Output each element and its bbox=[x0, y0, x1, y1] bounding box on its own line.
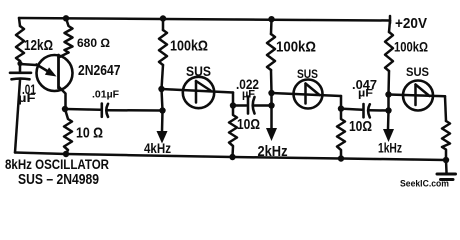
wire SUS1 cathode corner down bbox=[232, 93, 235, 106]
output arrow 4kHz shaft bbox=[161, 111, 164, 133]
node dot stage2 lower bbox=[268, 102, 274, 108]
capacitor C1 .01uF top plate bbox=[10, 72, 31, 75]
SUS U3 flag slant bbox=[416, 85, 430, 97]
resistor R4 100k stage2 top wire bbox=[270, 19, 273, 34]
svg-text:SUS: SUS bbox=[297, 67, 318, 81]
wire C3 to node D bbox=[254, 104, 272, 107]
capacitor C2 .01uF left plate bbox=[101, 104, 104, 117]
SUS U3 gate pole bbox=[414, 85, 417, 106]
SUS U1 circle bbox=[183, 77, 214, 108]
resistor R7 10 ohm zigzag stage2 bbox=[229, 106, 237, 158]
wire R1 bottom to node A bbox=[19, 61, 22, 64]
svg-text:.01µF: .01µF bbox=[92, 89, 120, 101]
capacitor C4 .047 left plate bbox=[362, 104, 365, 117]
node dot top rail 680 bbox=[63, 15, 69, 21]
wire node E to SUS3 bbox=[389, 95, 446, 97]
SUS U2 circle bbox=[294, 80, 323, 109]
resistor R1 12k zigzag bbox=[16, 26, 24, 61]
resistor R9 load zigzag bbox=[442, 121, 450, 160]
node dot stage1 upper bbox=[158, 86, 164, 92]
svg-text:2kHz: 2kHz bbox=[258, 144, 288, 160]
resistor R5 100k zigzag bbox=[385, 32, 393, 71]
svg-text:µF: µF bbox=[358, 88, 373, 100]
resistor R3 100k zigzag bbox=[159, 30, 167, 65]
svg-text:SeekIC.com: SeekIC.com bbox=[400, 179, 449, 190]
wire R3 to node C bbox=[162, 65, 164, 89]
svg-text:4kHz: 4kHz bbox=[144, 141, 171, 156]
resistor R8 10 ohm zigzag stage3 bbox=[337, 109, 345, 159]
capacitor C4 .047 right plate bbox=[368, 104, 370, 117]
capacitor C3 .022 left plate bbox=[247, 97, 250, 114]
svg-text:8kHz OSCILLATOR: 8kHz OSCILLATOR bbox=[5, 157, 109, 172]
SUS U1 flag slant bbox=[196, 81, 211, 91]
svg-text:10Ω: 10Ω bbox=[349, 119, 372, 135]
output arrow 2kHz shaft bbox=[270, 106, 273, 130]
SUS U1 gate pole bbox=[195, 81, 198, 103]
node dot bottom rail R6 bbox=[63, 151, 69, 157]
svg-text:100kΩ: 100kΩ bbox=[394, 39, 428, 55]
wire node A to C1 bbox=[19, 64, 22, 72]
svg-text:+20V: +20V bbox=[395, 15, 427, 32]
wire C2 to node B bbox=[108, 109, 163, 112]
svg-text:µF: µF bbox=[242, 89, 255, 101]
svg-text:1kHz: 1kHz bbox=[378, 140, 402, 156]
wire emitter from node A bbox=[20, 64, 36, 65]
wire top supply rail bbox=[19, 18, 390, 21]
resistor R3 100k stage1 top wire bbox=[162, 19, 165, 31]
wire oscillator output node to C2 bbox=[65, 108, 100, 111]
transistor Q1 emitter arrowhead bbox=[45, 67, 57, 76]
resistor R5 100k stage3 top wire bbox=[389, 21, 390, 33]
node dot bottom rail R8 bbox=[338, 155, 344, 161]
transistor Q1 base bar bbox=[57, 55, 60, 88]
ground bar 2 bbox=[441, 178, 454, 181]
wire C4 to node E bbox=[370, 109, 389, 112]
node dot bottom rail R7 bbox=[229, 154, 235, 160]
wire C1 to bottom rail bbox=[15, 80, 20, 153]
node dot top rail 100k1 bbox=[160, 15, 166, 21]
svg-text:SUS: SUS bbox=[406, 65, 429, 79]
node dot oscillator output bbox=[62, 106, 68, 112]
output arrow 2kHz head bbox=[266, 128, 277, 141]
capacitor C3 .022 right plate bbox=[253, 97, 255, 114]
wire +20V corner stub bbox=[389, 16, 392, 23]
transistor Q1 base1 lead bbox=[59, 87, 66, 109]
wire bottom ground rail bbox=[15, 153, 446, 161]
SUS U3 circle bbox=[403, 81, 433, 111]
svg-text:2N2647: 2N2647 bbox=[78, 63, 121, 79]
svg-text:10Ω: 10Ω bbox=[237, 117, 260, 133]
SUS U2 flag slant bbox=[306, 84, 320, 96]
svg-text:SUS: SUS bbox=[186, 64, 211, 79]
ground bar 1 bbox=[437, 173, 456, 176]
svg-text:SUS – 2N4989: SUS – 2N4989 bbox=[18, 172, 99, 188]
node dot stage1 lower bbox=[159, 107, 165, 113]
node dot stage3 upper bbox=[385, 91, 391, 97]
node dot stage3 lower bbox=[385, 107, 391, 113]
node dot bottom rail ground bbox=[443, 157, 449, 163]
output arrow 1kHz head bbox=[383, 129, 394, 142]
node dot top rail 100k2 bbox=[268, 16, 274, 22]
wire R4 to node D upper bbox=[270, 70, 273, 93]
capacitor C1 .01uF bottom plate bbox=[12, 77, 30, 80]
transistor Q1 2N2647 circle bbox=[37, 55, 73, 91]
node dot SUS1 cathode bbox=[230, 102, 236, 108]
svg-text:100kΩ: 100kΩ bbox=[170, 38, 208, 55]
wire node D upper to SUS2 bbox=[272, 93, 342, 96]
node dot SUS2 cathode bbox=[338, 105, 344, 111]
resistor R2 680 zigzag bbox=[65, 18, 73, 52]
wire R5 to node E bbox=[387, 71, 390, 95]
node dot stage2 upper bbox=[268, 90, 274, 96]
output arrow 4kHz head bbox=[157, 131, 168, 144]
wire SUS1 node to C3 bbox=[233, 104, 247, 107]
wire SUS2 cathode corner down bbox=[340, 96, 343, 109]
resistor R4 100k zigzag bbox=[267, 34, 275, 70]
ground stem bbox=[445, 160, 448, 173]
resistor R6 10 ohm zigzag bbox=[64, 109, 72, 154]
wire node D vertical bbox=[270, 93, 273, 106]
svg-text:10 Ω: 10 Ω bbox=[76, 125, 103, 142]
transistor Q1 emitter lead bbox=[37, 65, 50, 73]
svg-text:680 Ω: 680 Ω bbox=[77, 36, 110, 50]
node dot left branch bbox=[17, 61, 22, 66]
wire node E vertical bbox=[387, 95, 390, 111]
wire SUS3 output corner down bbox=[445, 96, 446, 121]
capacitor C2 .01uF right plate bbox=[106, 104, 108, 117]
resistor R1 12k left branch top wire bbox=[19, 18, 20, 26]
wire R2 to Q1 base2 bbox=[59, 53, 69, 58]
wire node C to SUS1 bbox=[162, 89, 234, 93]
SUS U2 gate pole bbox=[304, 84, 307, 104]
output arrow 1kHz shaft bbox=[387, 111, 390, 130]
svg-text:100kΩ: 100kΩ bbox=[276, 39, 316, 56]
svg-text:µF: µF bbox=[18, 91, 36, 105]
svg-text:12kΩ: 12kΩ bbox=[24, 37, 53, 54]
wire node C down to node B bbox=[162, 89, 163, 111]
wire SUS2 node to C4 bbox=[341, 109, 362, 110]
